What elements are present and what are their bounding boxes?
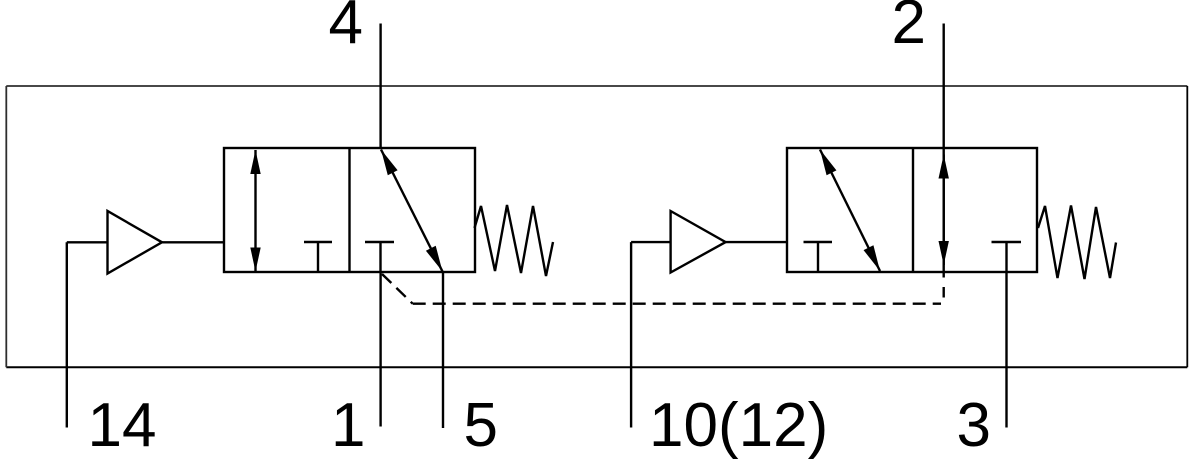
pilot actuator triangle (14) (108, 211, 163, 274)
wire triangle to V1 (162, 241, 224, 243)
valve V1 blocked port T (port 1) (365, 242, 394, 271)
dashed pilot signal line diagonal start (382, 274, 413, 304)
enclosure border top (6, 85, 1187, 87)
wire pilot 14 horizontal (67, 241, 108, 243)
svg-text:2: 2 (892, 0, 926, 57)
wire triangle to V2 (726, 241, 787, 243)
spring (valve V2 return) (1038, 206, 1116, 280)
svg-text:4: 4 (329, 0, 363, 57)
svg-text:10(12): 10(12) (649, 391, 828, 460)
valve V1 divider (348, 148, 350, 272)
wire port 4 (379, 24, 381, 149)
valve V2 blocked port T (left) (804, 242, 833, 271)
valve V2 divider (912, 148, 914, 272)
enclosure border right (1186, 86, 1188, 367)
wire pilot 10 horizontal (631, 241, 671, 243)
valve V2 diagonal flow arrow (820, 150, 880, 272)
svg-text:5: 5 (464, 391, 498, 460)
enclosure border left (5, 86, 7, 367)
svg-text:3: 3 (957, 391, 991, 460)
dashed pilot signal line horizontal (413, 303, 941, 305)
wire port 5 (442, 272, 444, 428)
wire port 14 vertical (66, 242, 68, 427)
spring (valve V1 return) (475, 205, 554, 276)
valve V2 double-headed vertical arrow (939, 155, 949, 266)
valve V1 double-headed vertical arrow (250, 150, 260, 272)
wire port 2 (943, 24, 945, 157)
enclosure border bottom (6, 366, 1187, 368)
valve V2 blocked port T (port 3) (992, 242, 1022, 271)
dashed pilot signal line vertical end (943, 287, 945, 298)
wire port 2 shaft through box (943, 156, 945, 278)
wire port 1 (379, 271, 381, 427)
valve V1 diagonal flow arrow (381, 150, 443, 272)
svg-text:1: 1 (331, 391, 365, 460)
valve V1 body (224, 148, 475, 272)
wire port 10(12) vertical (630, 242, 632, 427)
valve V2 body (787, 148, 1037, 272)
valve V1 blocked port T (left) (304, 242, 332, 271)
wire port 3 (1005, 271, 1007, 428)
pilot actuator triangle (10) (671, 211, 726, 273)
svg-text:14: 14 (88, 391, 157, 460)
